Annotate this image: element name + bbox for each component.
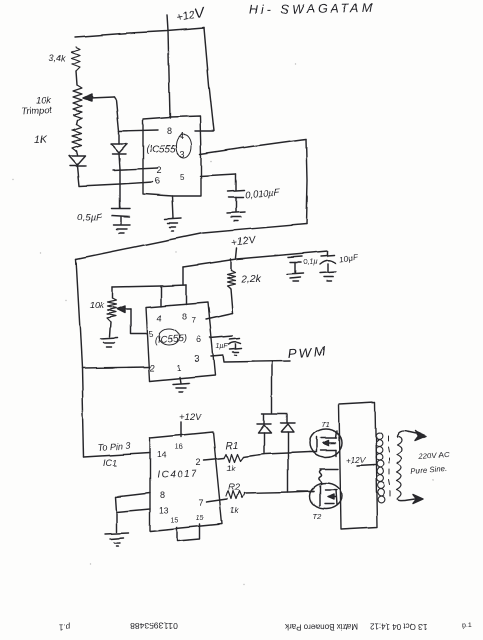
- svg-text:10k: 10k: [89, 300, 104, 310]
- transformer core dashes: [388, 436, 390, 496]
- scan specks: [12, 63, 434, 584]
- svg-text:(IC555: (IC555: [146, 144, 176, 155]
- ground under 0,1uF: [287, 273, 303, 281]
- wire pins 15 loop: [177, 524, 200, 541]
- svg-text:R2: R2: [228, 482, 240, 492]
- resistor R2: [226, 491, 244, 499]
- wire: [76, 151, 77, 155]
- wire pin 5 to cap: [200, 174, 236, 176]
- capacitor 0,1uF: [288, 256, 302, 257]
- diode D1: [69, 156, 85, 165]
- svg-text:p.1: p.1: [59, 622, 71, 631]
- diode D2: [111, 144, 127, 153]
- svg-text:0,1µ: 0,1µ: [303, 257, 318, 266]
- transformer core box: [339, 402, 377, 529]
- svg-text:1k: 1k: [230, 506, 239, 515]
- wire big loop: pin3 out top edge: [200, 139, 306, 154]
- svg-text:2: 2: [157, 165, 162, 175]
- +12V rail (section 2): [183, 251, 328, 267]
- wire: [76, 71, 77, 85]
- svg-text:4: 4: [157, 313, 162, 323]
- svg-text:+12V: +12V: [346, 456, 366, 465]
- wire 2,2k to pin 7: [231, 289, 233, 313]
- wire: [76, 120, 77, 124]
- transistor T2 mosfet: [310, 483, 342, 509]
- ground IC2 pin 1: [180, 377, 181, 383]
- wire T1 source squiggle: [320, 468, 338, 470]
- svg-text:14: 14: [157, 450, 167, 460]
- svg-text:7: 7: [191, 316, 196, 325]
- wire node horizontal: [112, 285, 186, 287]
- +12V tick: [236, 248, 237, 258]
- svg-text:7: 7: [198, 498, 203, 508]
- svg-text:Trimpot: Trimpot: [20, 105, 53, 118]
- wire D4 to lower gate line: [287, 432, 289, 492]
- wire pin 7 out: [206, 499, 227, 502]
- svg-text:16: 16: [175, 442, 183, 451]
- transformer primary winding: [376, 433, 385, 503]
- capacitor 0,5uF: [112, 208, 130, 210]
- svg-text:2: 2: [150, 363, 155, 373]
- wire clock to pin 14: [84, 453, 150, 457]
- svg-text:PWM: PWM: [287, 343, 328, 361]
- wire loop right edge: [306, 139, 307, 224]
- svg-text:2,2k: 2,2k: [240, 273, 262, 285]
- svg-text:T1: T1: [321, 420, 330, 429]
- capacitor 10uF: [327, 251, 329, 256]
- wire secondary top lead arrow: [397, 431, 418, 437]
- svg-text:+12V: +12V: [179, 412, 203, 423]
- trimpot 10k (section 2): [107, 298, 116, 322]
- wire pin 7: [206, 313, 233, 319]
- ground IC1 pin1: [172, 196, 173, 218]
- svg-text:6: 6: [196, 335, 201, 345]
- ground under 0,5uF: [113, 225, 130, 233]
- transistor T1 mosfet: [310, 429, 342, 457]
- wire loop left vertical down: [76, 259, 84, 457]
- wire D2 cathode down: [119, 154, 120, 169]
- wire pin 4 stub: [160, 286, 162, 306]
- wire pin 13 to ground: [117, 509, 150, 512]
- capacitor 1uF: [230, 338, 240, 339]
- op IC1 555 box: [143, 116, 201, 196]
- svg-text:0113953488: 0113953488: [130, 621, 177, 631]
- ground under trimpot: [110, 322, 111, 337]
- svg-text:T2: T2: [313, 512, 323, 521]
- svg-text:8: 8: [182, 312, 187, 322]
- wire pin 2 to left vertical: [82, 367, 150, 368]
- transformer secondary winding: [397, 436, 402, 499]
- wire node to cap: [119, 169, 121, 208]
- wire PWM down to diodes: [271, 362, 273, 413]
- svg-text:Hi- SWAGATAM: Hi- SWAGATAM: [249, 1, 376, 17]
- op IC3 4017 box: [150, 432, 222, 531]
- svg-text:5: 5: [149, 330, 154, 339]
- resistor 3,4k: [72, 47, 80, 71]
- svg-text:2: 2: [196, 457, 201, 467]
- wire pin 7 left: [119, 130, 158, 131]
- ground under 1uF: [230, 348, 242, 355]
- svg-text:8: 8: [160, 490, 165, 500]
- capacitor 0,010uF stem: [235, 174, 237, 190]
- svg-text:Matrix Bonaero Park: Matrix Bonaero Park: [285, 622, 359, 631]
- diode D3: [257, 423, 271, 425]
- svg-text:R1: R1: [225, 441, 238, 452]
- wire node to D2: [118, 131, 120, 144]
- svg-text:0,5µF: 0,5µF: [77, 212, 103, 223]
- svg-text:15: 15: [196, 515, 204, 522]
- wire diode tee bar: [262, 414, 287, 424]
- svg-text:IC4017: IC4017: [157, 469, 199, 481]
- wire pin 8 to ground: [116, 493, 150, 512]
- svg-text:8: 8: [167, 126, 172, 136]
- svg-text:IC1: IC1: [103, 458, 117, 468]
- svg-text:p.1: p.1: [462, 622, 472, 629]
- wire wiper to pin 5: [131, 309, 147, 334]
- resistor 2,2k stub: [230, 259, 232, 270]
- resistor R1: [224, 454, 243, 462]
- wire rail right edge down to pin 4: [195, 28, 214, 131]
- wire pin 2: [113, 168, 158, 170]
- resistor 1K: [72, 124, 81, 151]
- ground under 10uF: [320, 272, 336, 281]
- wire pin 3 output: [211, 355, 290, 362]
- wire center tap: [357, 465, 375, 466]
- ground under 4017: [116, 512, 118, 532]
- svg-text:1k: 1k: [226, 464, 235, 473]
- svg-text:1: 1: [177, 364, 182, 373]
- wire +12V to pin 16: [180, 422, 182, 437]
- svg-text:1K: 1K: [34, 134, 48, 146]
- resistor 2,2k: [227, 270, 235, 289]
- wire wiper to pin7 node: [114, 97, 119, 131]
- wire R2 to T2 gate: [244, 491, 314, 493]
- wire pin 8 stub: [185, 285, 187, 304]
- wire R1 to T1 gate: [243, 452, 310, 457]
- trimpot wiper arrow (section 2): [123, 308, 131, 310]
- trimpot wiper arrow: [90, 97, 114, 98]
- wire loop long bottom diagonal: [76, 224, 306, 259]
- op IC2 555 box: [146, 302, 215, 381]
- ground under 0,010uF: [227, 212, 245, 221]
- wire top +12V rail: [75, 28, 204, 37]
- wire pin 6 to cap: [210, 336, 233, 338]
- svg-text:6: 6: [155, 176, 160, 186]
- capacitor 0,010uF: [228, 190, 244, 191]
- wire pin 2 out: [204, 458, 224, 460]
- svg-text:13 Oct 04 14:12: 13 Oct 04 14:12: [370, 622, 427, 631]
- wire D3 to gate line: [263, 433, 265, 453]
- wire D1 to pin 6: [77, 166, 153, 186]
- svg-text:3: 3: [194, 354, 199, 364]
- diode D4: [281, 422, 295, 424]
- svg-text:5: 5: [180, 173, 185, 182]
- svg-text:15: 15: [171, 517, 179, 524]
- wire secondary bottom lead arrow: [398, 499, 415, 501]
- trimpot 10k: [73, 85, 82, 120]
- wire +12V vertical to IC1 pin 8: [167, 15, 170, 118]
- trimpot 10k (section 2) stem: [111, 287, 113, 298]
- svg-text:13: 13: [159, 505, 169, 515]
- svg-text:1µF: 1µF: [216, 343, 229, 350]
- wire rail down to node: [182, 267, 184, 285]
- svg-text:3,4k: 3,4k: [49, 53, 67, 63]
